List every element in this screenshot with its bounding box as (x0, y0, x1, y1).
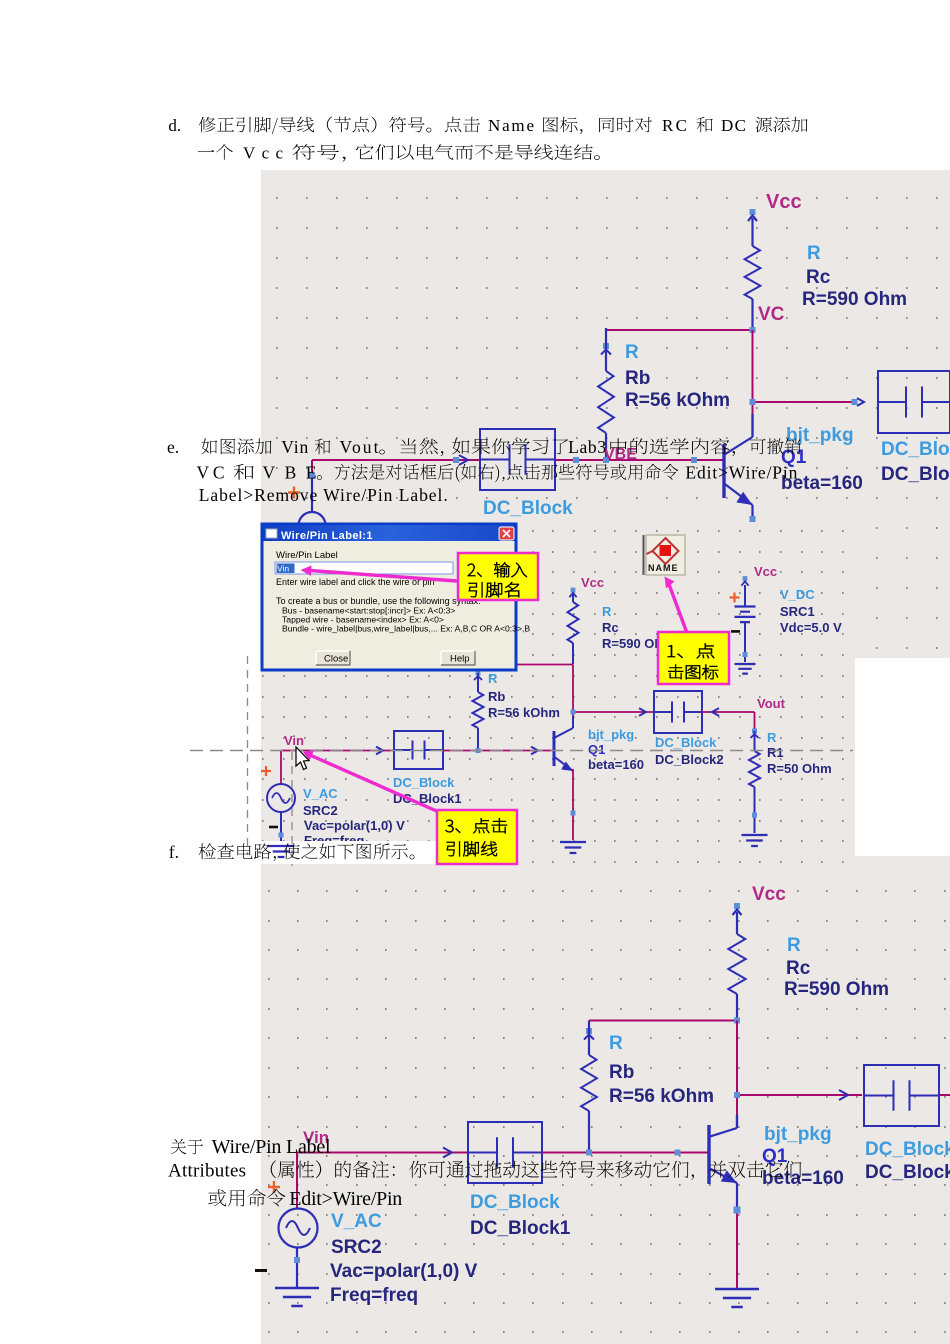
svg-text:Vout: Vout (340, 437, 379, 457)
label bjt_pkg Q1 (schematic 1) (781, 425, 863, 494)
svg-text:R=590 Ohm: R=590 Ohm (784, 979, 889, 1000)
label Rb values (bottom) (609, 1033, 714, 1107)
wire input (bottom) (297, 1148, 468, 1158)
NAME icon button (644, 535, 686, 575)
svg-text:Edit>Wire/Pin: Edit>Wire/Pin (289, 1188, 402, 1210)
callout box 1 (658, 632, 729, 684)
wire emitter down (bottom) (734, 1183, 741, 1288)
power Vcc (schematic 1) (748, 191, 802, 246)
svg-text:Wire/Pin Label:1: Wire/Pin Label:1 (281, 530, 373, 542)
label DC_Block right (schematic 1) (881, 439, 950, 485)
svg-text:Vac=polar(1,0) V: Vac=polar(1,0) V (304, 818, 405, 833)
power Vcc right (middle) (741, 564, 777, 586)
wire collector vertical (bottom) (736, 1021, 738, 1118)
battery V_DC SRC1 (middle) (735, 585, 756, 662)
svg-text:DC_Block: DC_Block (865, 1139, 950, 1160)
resistor Rc (bottom) (728, 934, 745, 1020)
svg-text:f.: f. (169, 842, 179, 862)
wire VC horizontal (middle) (478, 665, 573, 673)
battery plus minus (middle) (730, 593, 741, 632)
svg-text:Q1: Q1 (588, 742, 605, 757)
svg-text:beta=160: beta=160 (588, 757, 644, 772)
svg-text:To create a bus or bundle, use: To create a bus or bundle, use the follo… (276, 596, 481, 606)
wire output to DC_Block2 (middle) (571, 708, 655, 716)
label R1 values (middle) (767, 730, 832, 776)
resistor R1 (middle) (749, 729, 760, 834)
svg-text:Freq=freq: Freq=freq (330, 1285, 418, 1306)
dashed guide horizontal (middle) (190, 750, 853, 752)
label DC_Block DC_Block2 text (middle) (655, 735, 724, 767)
transistor Q1 (bottom) (709, 1115, 737, 1184)
svg-text:R1: R1 (767, 745, 784, 760)
wire collector vertical (middle) (572, 665, 574, 719)
capacitor DC_Block output (bottom) (864, 1065, 950, 1126)
V_AC source SRC2 (bottom) (279, 1209, 318, 1289)
label Rb values (middle) (488, 671, 560, 720)
node Vin label (middle) (284, 733, 304, 748)
dashed guide vertical (middle) (247, 656, 249, 855)
paragraph e line 2 (197, 463, 798, 483)
svg-text:V_AC: V_AC (303, 786, 338, 801)
power Vcc (bottom) (733, 884, 787, 934)
svg-text:DC_Block1: DC_Block1 (470, 1218, 571, 1239)
label Rb values (schematic 1) (625, 342, 730, 411)
wire emitter down (schematic 1) (750, 505, 756, 522)
label DC_Block1 (bottom) (470, 1192, 571, 1239)
svg-text:SRC2: SRC2 (303, 803, 338, 818)
svg-text:Name: Name (488, 116, 534, 135)
svg-text:R: R (807, 243, 821, 264)
transistor Q1 (middle) (554, 716, 573, 771)
svg-text:V_AC: V_AC (331, 1211, 382, 1232)
resistor Rc (middle) (568, 602, 579, 664)
callout arrow 2 to Vin field (301, 566, 458, 582)
wire base (schematic 1) (555, 457, 724, 463)
label Rc values (bottom) (784, 935, 889, 1000)
paragraph d line 2 (198, 144, 600, 163)
svg-text:DC_Bloc: DC_Bloc (881, 464, 950, 485)
svg-text:SRC2: SRC2 (331, 1237, 382, 1258)
white band under f paragraph (165, 841, 437, 864)
resistor Rc (schematic 1) (745, 246, 761, 327)
svg-text:Vout: Vout (757, 696, 786, 711)
paragraph e line 3 (199, 485, 448, 505)
svg-text:Help: Help (450, 654, 470, 665)
wire to V_AC vertical (schematic 1) (309, 460, 315, 512)
svg-text:Vcc: Vcc (752, 884, 786, 905)
label V_DC SRC1 (middle) (780, 587, 842, 635)
capacitor DC_Block1 (middle) (394, 731, 443, 769)
svg-text:R: R (787, 935, 801, 956)
paragraph g line 3 (208, 1188, 402, 1210)
label DC_Block1 (middle) (393, 775, 462, 806)
wire DC_Block2 to Vout (middle) (702, 708, 755, 731)
label bjt_pkg Q1 (middle) (588, 727, 644, 772)
svg-text:SRC1: SRC1 (780, 604, 815, 619)
ground emitter (middle) (560, 842, 586, 853)
mouse cursor at Vin (296, 747, 309, 770)
svg-text:Vin: Vin (284, 733, 304, 748)
label DC_Block input (schematic 1) (483, 498, 573, 519)
svg-text:Vin: Vin (281, 437, 308, 457)
svg-text:e.: e. (167, 437, 179, 457)
callout box 3 (437, 810, 517, 864)
svg-text:DC_Block: DC_Block (655, 735, 717, 750)
svg-text:Wire/Pin Label: Wire/Pin Label (276, 550, 338, 561)
label Rc values (middle) (602, 604, 664, 651)
callout box 2 (458, 553, 538, 600)
svg-text:Vcc: Vcc (766, 191, 802, 213)
ground V_DC (middle) (735, 664, 756, 674)
V_AC minus (bottom) (255, 1269, 267, 1272)
node Vin label (bottom) (303, 1128, 329, 1147)
node VBE label (schematic 1) (604, 446, 637, 463)
transistor Q1 (schematic 1) (724, 414, 753, 505)
paragraph d line 1 (168, 116, 807, 135)
svg-text:Vcc: Vcc (243, 144, 283, 163)
V_AC plus mark (bottom) (268, 1181, 280, 1193)
svg-text:R: R (602, 604, 612, 619)
svg-text:V_DC: V_DC (780, 587, 815, 602)
svg-text:R=56 kOhm: R=56 kOhm (488, 705, 560, 720)
svg-text:DC_Block1: DC_Block1 (393, 791, 462, 806)
svg-text:DC_Block: DC_Block (393, 775, 455, 790)
svg-text:R=56 kOhm: R=56 kOhm (625, 390, 730, 411)
power Vcc left (middle) (569, 575, 604, 602)
label DC_Block output (bottom) (865, 1139, 950, 1183)
label Rc values (schematic 1) (802, 243, 907, 310)
wire base (bottom) (542, 1150, 709, 1156)
svg-text:VBE: VBE (604, 446, 637, 463)
wire VC vertical to collector (schematic 1) (752, 330, 754, 416)
dialog Wire/Pin Label:1 (262, 524, 530, 670)
svg-text:Bundle - wire_label|bus,wire_l: Bundle - wire_label|bus,wire_label|bus,.… (282, 624, 530, 634)
callout arrow 1 to NAME icon (665, 577, 688, 634)
svg-text:R: R (625, 342, 639, 363)
svg-text:R: R (488, 671, 498, 686)
svg-text:Rc: Rc (806, 267, 831, 288)
node Vout label (middle) (757, 696, 786, 711)
V_AC source circle top (schematic 1) (299, 512, 326, 539)
svg-text:Lab3: Lab3 (568, 437, 606, 457)
resistor Rb (middle) (473, 671, 484, 751)
wire VC horizontal (schematic 1) (606, 327, 756, 342)
svg-text:DC_Block2: DC_Block2 (655, 752, 724, 767)
label V_AC SRC2 (bottom) (330, 1211, 478, 1306)
paragraph g line 1 (171, 1136, 331, 1158)
wire VC horizontal (bottom) (589, 1018, 740, 1024)
svg-text:R: R (767, 730, 777, 745)
svg-text:R=50 Ohm: R=50 Ohm (767, 761, 832, 776)
svg-text:DC_Block2: DC_Block2 (865, 1162, 950, 1183)
svg-text:R=56 kOhm: R=56 kOhm (609, 1086, 714, 1107)
V_AC plus mark (schematic 1) (288, 487, 300, 499)
wire input (middle) (281, 747, 394, 755)
svg-text:Rb: Rb (625, 368, 650, 389)
svg-text:Vdc=5.0 V: Vdc=5.0 V (780, 620, 842, 635)
ground R1 (middle) (742, 835, 768, 846)
V_AC source SRC2 (middle) (267, 751, 295, 847)
paragraph e line 1 (167, 437, 801, 457)
capacitor DC_Block input (schematic 1) (480, 429, 555, 490)
capacitor DC_Block2 (middle) (654, 691, 702, 733)
wire to V_AC vertical (bottom) (296, 1153, 298, 1209)
capacitor DC_Block1 (bottom) (468, 1122, 542, 1183)
svg-text:R=590 OH: R=590 OH (602, 636, 664, 651)
svg-text:Vin: Vin (277, 564, 289, 574)
resistor Rb (schematic 1) (598, 328, 614, 460)
svg-text:Attributes: Attributes (168, 1161, 246, 1182)
svg-text:Rc: Rc (786, 958, 811, 979)
wire output to DC_Block (schematic 1) (750, 398, 865, 406)
ground V_AC (bottom) (275, 1288, 319, 1306)
svg-text:d.: d. (168, 116, 181, 135)
svg-text:Rc: Rc (602, 620, 619, 635)
svg-text:bjt_pkg: bjt_pkg (588, 727, 634, 742)
svg-text:Edit>Wire/Pin: Edit>Wire/Pin (685, 463, 797, 483)
ground emitter (bottom) (715, 1289, 759, 1307)
svg-text:Vcc: Vcc (581, 575, 604, 590)
callout arrow 3 to Vin wire (303, 751, 441, 814)
svg-text:R=590 Ohm: R=590 Ohm (802, 289, 907, 310)
svg-text:Rb: Rb (609, 1062, 634, 1083)
svg-text:VC: VC (758, 304, 785, 325)
wire output to DC_Block (bottom) (734, 1090, 862, 1100)
svg-text:NAME: NAME (648, 563, 679, 573)
wire input (schematic 1) (312, 455, 480, 465)
label V_AC SRC2 (middle) (303, 786, 405, 848)
dashed guide vertical 2 (middle) (291, 752, 293, 866)
wire emitter down (middle) (571, 769, 576, 840)
svg-text:Rb: Rb (488, 689, 505, 704)
svg-text:Wire/Pin Label: Wire/Pin Label (212, 1136, 331, 1158)
wire base (middle) (443, 747, 554, 755)
svg-text:DC_Bloc: DC_Bloc (881, 439, 950, 460)
paragraph g line 2 (168, 1160, 801, 1181)
node VC label (schematic 1) (758, 304, 785, 325)
label bjt_pkg Q1 (bottom) (762, 1124, 844, 1189)
svg-text:VBE: VBE (263, 463, 317, 483)
svg-text:Label>Remove Wire/Pin Label.: Label>Remove Wire/Pin Label. (199, 485, 448, 505)
paragraph f line (169, 842, 415, 862)
svg-text:Vcc: Vcc (754, 564, 777, 579)
V_AC plus minus (middle) (261, 766, 278, 827)
svg-text:Vac=polar(1,0) V: Vac=polar(1,0) V (330, 1261, 478, 1282)
capacitor DC_Block output (schematic 1) (878, 371, 950, 433)
svg-text:DC_Block: DC_Block (483, 498, 573, 519)
svg-text:R: R (609, 1033, 623, 1054)
resistor Rb (bottom) (581, 1021, 597, 1153)
svg-text:Close: Close (324, 654, 348, 665)
ground V_AC (middle) (268, 846, 294, 857)
svg-text:bjt_pkg: bjt_pkg (764, 1124, 832, 1145)
svg-text:DC_Block: DC_Block (470, 1192, 560, 1213)
